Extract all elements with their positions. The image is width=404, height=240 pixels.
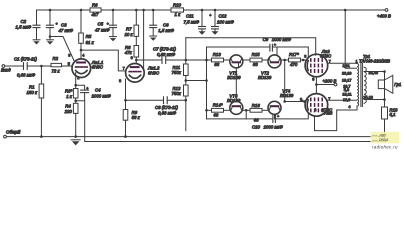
svg-text:24,13: 24,13 — [363, 96, 373, 100]
node +400V terminal — [377, 9, 391, 19]
resistor R18 — [382, 100, 399, 142]
svg-text:68: 68 — [254, 118, 259, 123]
transistor VT4 BD139 — [268, 88, 294, 119]
svg-text:470: 470 — [290, 62, 298, 67]
svg-text:‒‒‒ ОВЦА: ‒‒‒ ОВЦА — [371, 138, 389, 142]
wire R11-R12 node to buffer input — [186, 79, 208, 82]
ground under C5 — [110, 37, 117, 42]
svg-text:3: 3 — [68, 54, 70, 58]
svg-text:C8 (К73-11): C8 (К73-11) — [155, 105, 179, 110]
wire outer drive line to upper tube top pin — [186, 38, 316, 55]
svg-text:68: 68 — [214, 113, 219, 118]
svg-text:18,17: 18,17 — [342, 79, 352, 83]
wire to lower tube grid — [285, 100, 306, 103]
svg-text:R11: R11 — [173, 65, 181, 70]
resistor R1 — [27, 66, 44, 138]
resistor R7 — [125, 9, 139, 37]
wire feedback line bottom — [85, 101, 385, 142]
svg-text:15,11: 15,11 — [342, 92, 351, 96]
resistor R6 — [90, 2, 101, 17]
capacitor C11 — [184, 9, 206, 35]
svg-text:0,68 мкФ: 0,68 мкФ — [158, 110, 177, 115]
capacitor C3 — [47, 9, 74, 40]
svg-text:7,5 мкФ: 7,5 мкФ — [184, 19, 200, 24]
svg-text:12,9: 12,9 — [343, 98, 350, 102]
capacitor C2 — [16, 19, 41, 40]
svg-text:1 к: 1 к — [175, 12, 182, 17]
wire +400 rail to transformer tap — [344, 9, 357, 69]
tube La2 output pentode — [304, 49, 332, 81]
svg-text:+400 В: +400 В — [377, 13, 391, 18]
svg-text:C11: C11 — [186, 14, 194, 19]
svg-text:91 к: 91 к — [86, 40, 95, 45]
svg-text:56 к: 56 к — [132, 115, 141, 120]
svg-text:Общий: Общий — [6, 129, 21, 134]
wire buffer left edge — [205, 47, 208, 119]
svg-text:R13: R13 — [213, 52, 222, 57]
svg-text:220: 220 — [64, 109, 73, 114]
svg-text:1,5 мкФ: 1,5 мкФ — [158, 28, 174, 33]
svg-text:20,19: 20,19 — [342, 71, 352, 75]
svg-text:2: 2 — [314, 108, 316, 112]
svg-text:+: + — [277, 115, 280, 119]
resistor R11 — [172, 38, 189, 85]
tube La1.2 triode — [119, 56, 160, 83]
resistor R5 — [79, 9, 95, 59]
svg-text:R17*: R17* — [289, 52, 299, 57]
svg-text:radiohec.ru: radiohec.ru — [372, 144, 398, 149]
transistor VT2 BD139 — [258, 47, 289, 80]
svg-text:750к: 750к — [172, 70, 182, 75]
svg-text:+: + — [56, 22, 59, 26]
resistor R15 — [243, 52, 268, 67]
svg-text:1000 мкФ: 1000 мкФ — [92, 94, 112, 99]
svg-text:C6: C6 — [163, 22, 169, 27]
ground under C2 — [33, 40, 40, 45]
wire bootstrap bottom line with capacitor C10 — [207, 113, 309, 129]
svg-text:6Н9С: 6Н9С — [92, 65, 104, 70]
svg-text:Ла3: Ла3 — [324, 111, 333, 116]
svg-text:1,5 мкФ: 1,5 мкФ — [16, 25, 32, 30]
resistor R12 — [172, 85, 189, 131]
svg-text:4: 4 — [82, 53, 84, 57]
ground under C3 — [47, 40, 54, 45]
wire secondary tap upper to speaker — [364, 70, 386, 75]
wire La3 tap connection — [328, 99, 357, 101]
tube La3 output pentode — [300, 94, 333, 117]
svg-text:4: 4 — [348, 105, 350, 109]
svg-text:5,1: 5,1 — [390, 112, 397, 117]
wire stage1 anode to stage2 grid — [81, 50, 126, 71]
svg-text:C4: C4 — [95, 88, 101, 93]
svg-text:R1: R1 — [29, 85, 35, 90]
wire VT1 emitter to VT3 collector — [235, 68, 237, 102]
node Obschiy terminal and ground bus — [4, 129, 385, 138]
svg-text:BD139: BD139 — [227, 75, 241, 80]
resistor R10 — [171, 2, 184, 17]
svg-text:8: 8 — [119, 79, 121, 83]
node input terminal — [1, 65, 11, 73]
svg-text:C2: C2 — [21, 19, 27, 24]
ground main below bus — [71, 140, 80, 146]
svg-text:5: 5 — [68, 62, 70, 66]
svg-text:47 мкФ: 47 мкФ — [95, 28, 110, 33]
resistor R16 — [250, 103, 268, 122]
resistor R8 — [125, 36, 139, 63]
wire C3 node to tube pin3 diagonal — [50, 37, 74, 62]
svg-text:+200 В: +200 В — [323, 78, 337, 83]
svg-text:C7 (К73-11): C7 (К73-11) — [153, 46, 177, 51]
capacitor C12 — [209, 9, 234, 35]
wire VT2 emitter down to lower grid line — [283, 60, 286, 103]
svg-text:0,68 мкФ: 0,68 мкФ — [157, 52, 176, 57]
resistor R2 — [51, 56, 72, 73]
resistor R9 — [123, 99, 140, 138]
svg-text:68: 68 — [214, 62, 219, 67]
svg-text:C3: C3 — [61, 23, 67, 28]
node +200V terminal — [315, 77, 337, 94]
wire rail to tube La1.2 top — [142, 9, 145, 70]
capacitor C5 — [95, 9, 117, 37]
wire top +400V rail — [37, 10, 386, 25]
wire La2 anode to transformer — [328, 62, 357, 64]
resistor R14* — [207, 103, 230, 118]
svg-text:+: + — [209, 13, 212, 17]
wire La1.2 cathode to C8 line — [125, 79, 127, 100]
svg-text:C12: C12 — [219, 14, 228, 19]
svg-text:6П6С: 6П6С — [320, 54, 332, 59]
svg-text:5,8: 5,8 — [344, 88, 349, 92]
svg-text:R14*: R14* — [213, 103, 223, 108]
resistor R3* — [65, 89, 78, 104]
svg-text:47к: 47к — [125, 50, 133, 55]
transistor VT3 BD139 — [227, 93, 250, 119]
svg-text:1000 мкФ: 1000 мкФ — [264, 124, 284, 129]
svg-text:9: 9 — [312, 78, 314, 82]
svg-text:Вход: Вход — [1, 68, 11, 73]
capacitor C1 — [5, 57, 51, 78]
svg-text:C5: C5 — [98, 21, 104, 26]
svg-text:1: 1 — [356, 59, 358, 63]
svg-text:‒‒‒ .ИВУ: ‒‒‒ .ИВУ — [371, 134, 387, 138]
ground under C6 — [150, 36, 157, 41]
svg-text:R16: R16 — [252, 103, 261, 108]
svg-text:3: 3 — [304, 55, 306, 59]
svg-text:22,43: 22,43 — [369, 71, 379, 75]
svg-text:100 мкФ: 100 мкФ — [217, 19, 234, 24]
svg-text:2: 2 — [77, 76, 79, 80]
svg-text:47 мкФ: 47 мкФ — [59, 28, 74, 33]
capacitor C6 — [150, 9, 175, 36]
svg-text:R10: R10 — [173, 2, 182, 7]
svg-text:BD139: BD139 — [227, 98, 241, 103]
resistor R13 — [207, 52, 230, 67]
svg-text:BD139: BD139 — [280, 93, 294, 98]
svg-text:10 к: 10 к — [125, 32, 134, 37]
svg-text:R12: R12 — [173, 86, 182, 91]
speaker Gr1 — [378, 72, 402, 100]
capacitor C8 — [126, 97, 186, 116]
svg-text:R15: R15 — [252, 52, 261, 57]
svg-text:R7: R7 — [126, 27, 132, 32]
svg-text:R9: R9 — [132, 110, 138, 115]
svg-text:Гр1: Гр1 — [394, 82, 402, 87]
transformer Tr1 — [342, 54, 390, 109]
resistor R17* — [289, 52, 306, 67]
svg-text:C1 (К73-11): C1 (К73-11) — [14, 57, 38, 62]
svg-text:6Н9С: 6Н9С — [148, 70, 160, 75]
resistor R4 — [64, 103, 78, 138]
svg-text:7: 7 — [123, 67, 125, 71]
svg-text:2,21: 2,21 — [343, 64, 350, 68]
svg-text:BD139: BD139 — [258, 75, 272, 80]
svg-text:3,: 3, — [300, 98, 303, 102]
wire La3 anode to transformer bottom — [315, 106, 358, 131]
svg-text:R4: R4 — [65, 103, 71, 108]
svg-text:68: 68 — [253, 62, 258, 67]
wire La1.1 cathode — [74, 73, 77, 89]
svg-text:750к: 750к — [172, 91, 182, 96]
watermark — [371, 132, 400, 150]
wire bootstrap top line with capacitor C9 — [207, 37, 309, 57]
svg-text:ТАН46-220/28В: ТАН46-220/28В — [359, 58, 390, 63]
svg-text:0,68 мкФ: 0,68 мкФ — [17, 73, 36, 78]
svg-text:R5: R5 — [86, 34, 92, 39]
svg-text:1 к: 1 к — [66, 94, 73, 99]
transistor VT1 BD139 — [227, 55, 243, 80]
svg-text:6: 6 — [131, 56, 133, 60]
wire secondary tap lower — [363, 96, 385, 101]
tube La1.1 triode — [68, 53, 104, 80]
svg-text:C10: C10 — [252, 124, 261, 129]
svg-text:R2: R2 — [53, 56, 59, 61]
svg-text:150 к: 150 к — [27, 90, 38, 95]
capacitor C7 — [136, 46, 206, 63]
svg-text:R6: R6 — [92, 2, 98, 7]
svg-text:4к7: 4к7 — [92, 12, 99, 17]
capacitor C4 — [76, 85, 112, 101]
svg-text:72 к: 72 к — [52, 68, 61, 73]
